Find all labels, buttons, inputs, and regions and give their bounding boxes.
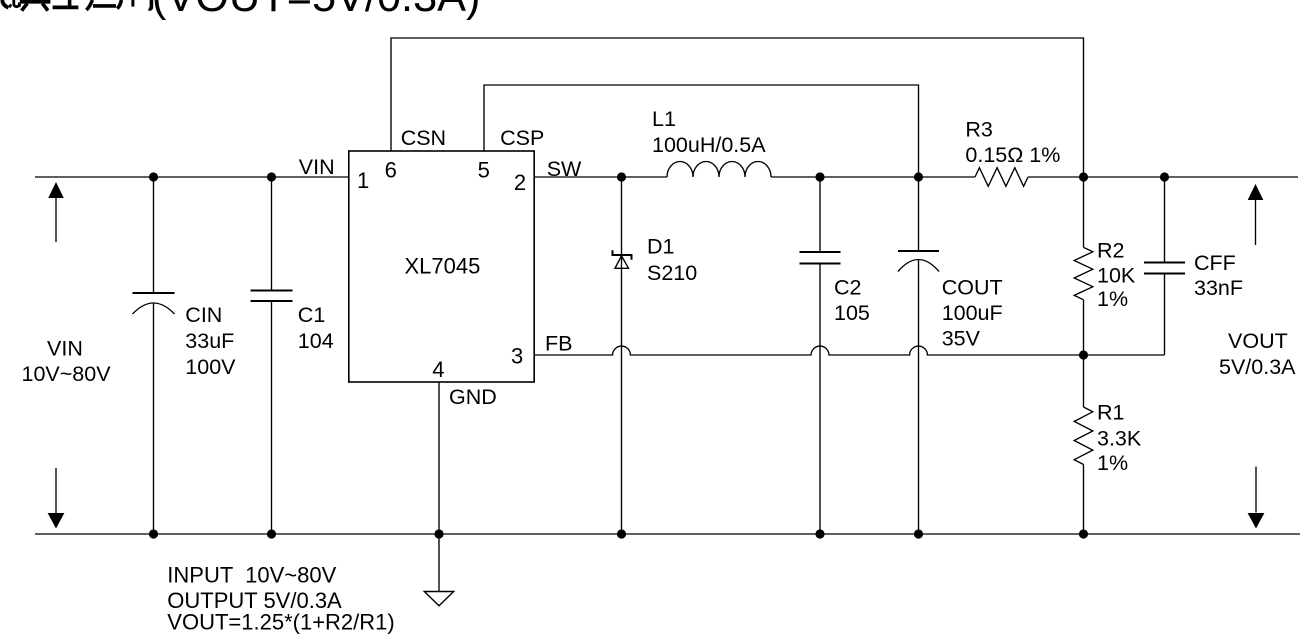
wire L1 to R3 bbox=[771, 176, 975, 178]
resistor R1 bbox=[1074, 407, 1093, 465]
op-amp/regulator IC U1 XL7045 body bbox=[349, 151, 534, 382]
svg-text:4: 4 bbox=[432, 357, 444, 382]
wire D1 branch bbox=[621, 177, 623, 534]
svg-text:105: 105 bbox=[834, 301, 870, 325]
svg-text:R2: R2 bbox=[1097, 239, 1124, 263]
wire ground bottom rail bbox=[35, 533, 1300, 535]
svg-text:CSN: CSN bbox=[401, 126, 446, 150]
svg-text:100V: 100V bbox=[185, 355, 236, 379]
diode D1 (schottky) symbol bbox=[613, 250, 632, 268]
svg-text:5: 5 bbox=[478, 158, 490, 183]
wire R2 to FB node bbox=[1083, 300, 1085, 355]
svg-text:1: 1 bbox=[357, 168, 369, 193]
wire GND symbol stem bbox=[438, 534, 440, 592]
svg-text:VIN: VIN bbox=[47, 337, 83, 361]
wire FB node to R1 bbox=[1083, 355, 1085, 407]
wire R3 to output node bbox=[1028, 176, 1084, 178]
svg-text:6: 6 bbox=[385, 158, 397, 183]
capacitor COUT (polarized) bbox=[898, 177, 939, 534]
svg-text:3.3K: 3.3K bbox=[1097, 427, 1142, 451]
svg-text:FB: FB bbox=[545, 332, 572, 356]
VOUT down arrow bbox=[1248, 467, 1265, 529]
wire CSP net (pin5 riser, run, drop to COUT node) bbox=[484, 85, 919, 177]
svg-text:VOUT: VOUT bbox=[1228, 329, 1288, 353]
svg-text:35V: 35V bbox=[942, 327, 981, 351]
wire SW pin2 to L1 bbox=[534, 176, 667, 178]
svg-text:COUT: COUT bbox=[942, 276, 1003, 300]
resistor R2 bbox=[1074, 247, 1093, 299]
capacitor CFF bbox=[1144, 177, 1185, 355]
svg-text:1%: 1% bbox=[1097, 451, 1128, 475]
svg-text:SW: SW bbox=[547, 157, 582, 181]
svg-text:INPUT 10V~80V: INPUT 10V~80V bbox=[167, 563, 336, 588]
capacitor C1 bbox=[251, 177, 293, 534]
svg-text:C2: C2 bbox=[834, 276, 861, 300]
wire output node to R2 bbox=[1083, 177, 1085, 247]
junction dots bottom rail bbox=[149, 529, 1088, 538]
wire GND pin4 stem bbox=[438, 382, 440, 534]
capacitor C2 bbox=[800, 177, 841, 534]
svg-text:0.15Ω 1%: 0.15Ω 1% bbox=[965, 143, 1060, 167]
VOUT up arrow bbox=[1248, 184, 1264, 245]
svg-text:33nF: 33nF bbox=[1194, 276, 1243, 300]
svg-text:S210: S210 bbox=[647, 261, 697, 285]
junction dot FB node bbox=[1079, 350, 1088, 359]
capacitor CIN (polarized) bbox=[133, 177, 175, 534]
svg-text:10V~80V: 10V~80V bbox=[22, 362, 112, 386]
svg-text:10K: 10K bbox=[1097, 264, 1136, 288]
svg-text:VIN: VIN bbox=[299, 155, 335, 179]
svg-text:CSP: CSP bbox=[500, 126, 544, 150]
svg-text:104: 104 bbox=[298, 329, 334, 353]
wire FB net with hops over D1, C2, COUT bbox=[534, 346, 1164, 355]
wire R1 to bottom rail bbox=[1083, 465, 1085, 535]
svg-text:100uF: 100uF bbox=[942, 301, 1003, 325]
svg-text:33uF: 33uF bbox=[185, 329, 234, 353]
title CJK characters (bottom sliver of 统典型应用) bbox=[2, 0, 151, 11]
svg-text:L1: L1 bbox=[652, 107, 676, 131]
svg-text:CFF: CFF bbox=[1194, 251, 1236, 275]
ground symbol bbox=[424, 592, 453, 606]
svg-text:GND: GND bbox=[449, 385, 497, 409]
wire CSN net (pin6 riser, top run, drop to output node) bbox=[391, 38, 1084, 177]
svg-text:(VOUT=5V/0.3A): (VOUT=5V/0.3A) bbox=[152, 0, 480, 21]
svg-text:D1: D1 bbox=[647, 235, 674, 259]
VIN up arrow bbox=[48, 182, 64, 242]
svg-text:2: 2 bbox=[514, 170, 526, 195]
svg-text:CIN: CIN bbox=[185, 303, 222, 327]
VIN down arrow bbox=[48, 468, 65, 529]
junction dots top rail bbox=[149, 172, 1169, 181]
svg-text:C1: C1 bbox=[298, 303, 325, 327]
resistor R3 bbox=[975, 168, 1028, 187]
svg-text:1%: 1% bbox=[1097, 287, 1128, 311]
svg-text:R1: R1 bbox=[1097, 401, 1124, 425]
wire VIN top rail bbox=[35, 176, 349, 178]
svg-text:VOUT=1.25*(1+R2/R1): VOUT=1.25*(1+R2/R1) bbox=[167, 610, 394, 635]
svg-text:R3: R3 bbox=[965, 118, 993, 142]
inductor L1 bbox=[667, 162, 771, 178]
svg-text:XL7045: XL7045 bbox=[405, 254, 481, 279]
svg-text:5V/0.3A: 5V/0.3A bbox=[1219, 355, 1296, 379]
svg-text:3: 3 bbox=[511, 344, 523, 369]
svg-text:100uH/0.5A: 100uH/0.5A bbox=[652, 133, 766, 157]
wire VOUT top rail bbox=[1084, 176, 1299, 178]
